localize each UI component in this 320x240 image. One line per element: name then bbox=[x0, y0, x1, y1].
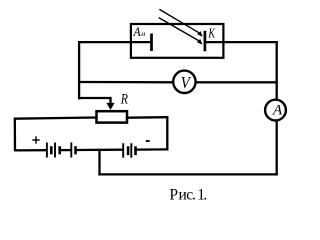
battery cell 3 short plate bbox=[74, 146, 77, 154]
battery cell 5 long plate bbox=[130, 143, 132, 158]
battery cell 1 short plate bbox=[50, 146, 53, 154]
battery cell 2 long plate bbox=[54, 143, 56, 158]
wire (battery loop left edge) bbox=[14, 118, 16, 152]
device box (electromagnet Am with key K) bbox=[131, 24, 224, 58]
voltmeter V bbox=[173, 71, 195, 93]
svg-text:м: м bbox=[140, 31, 146, 38]
wire (battery row segment 3) bbox=[77, 149, 123, 152]
svg-text:A: A bbox=[133, 24, 141, 39]
wire (battery row segment 2) bbox=[61, 149, 71, 151]
rheostat R (potentiometer body) bbox=[97, 111, 128, 122]
wire (junction drop) bbox=[98, 149, 100, 176]
contact bar (Am side) bbox=[150, 34, 153, 52]
wire (wiper horizontal) bbox=[78, 97, 111, 99]
label K bbox=[208, 27, 216, 42]
label R bbox=[120, 91, 128, 107]
wire (voltmeter left) bbox=[78, 81, 174, 84]
ammeter A bbox=[265, 100, 286, 121]
wire (voltmeter right) bbox=[196, 81, 278, 83]
wire (battery loop right edge) bbox=[166, 116, 168, 150]
battery cell 1 long plate bbox=[46, 143, 48, 158]
key lever arrow 2 bbox=[159, 18, 203, 45]
key lever arrow 1 bbox=[159, 9, 202, 36]
svg-text:Рис. 1.: Рис. 1. bbox=[169, 187, 207, 204]
wire (bottom return) bbox=[98, 173, 277, 175]
svg-text:R: R bbox=[120, 91, 128, 107]
wire (battery row segment 1) bbox=[15, 149, 46, 151]
svg-text:K: K bbox=[208, 27, 216, 42]
svg-text:A: A bbox=[272, 103, 283, 119]
caption Fig.1 bbox=[169, 187, 207, 204]
wire bbox=[206, 41, 278, 43]
wire (rheostat left) bbox=[14, 118, 96, 119]
wire (rheostat right) bbox=[128, 116, 169, 119]
wiper arrow of rheostat bbox=[106, 97, 114, 110]
wire (right vertical upper) bbox=[276, 41, 278, 100]
minus label bbox=[146, 140, 150, 142]
battery cell 4 long plate bbox=[122, 143, 124, 158]
wire (left vertical) bbox=[78, 41, 80, 99]
plus label bbox=[32, 136, 39, 143]
battery cell 5 short plate bbox=[134, 146, 137, 155]
battery cell 3 long plate bbox=[70, 143, 72, 158]
battery cell 4 short plate bbox=[127, 146, 130, 155]
label Am bbox=[133, 24, 146, 39]
wire (right vertical lower) bbox=[276, 121, 278, 176]
wire (battery row segment 4) bbox=[137, 148, 169, 151]
battery cell 2 short plate bbox=[58, 146, 61, 154]
contact bar (K side) bbox=[204, 31, 207, 52]
wire bbox=[78, 41, 150, 43]
